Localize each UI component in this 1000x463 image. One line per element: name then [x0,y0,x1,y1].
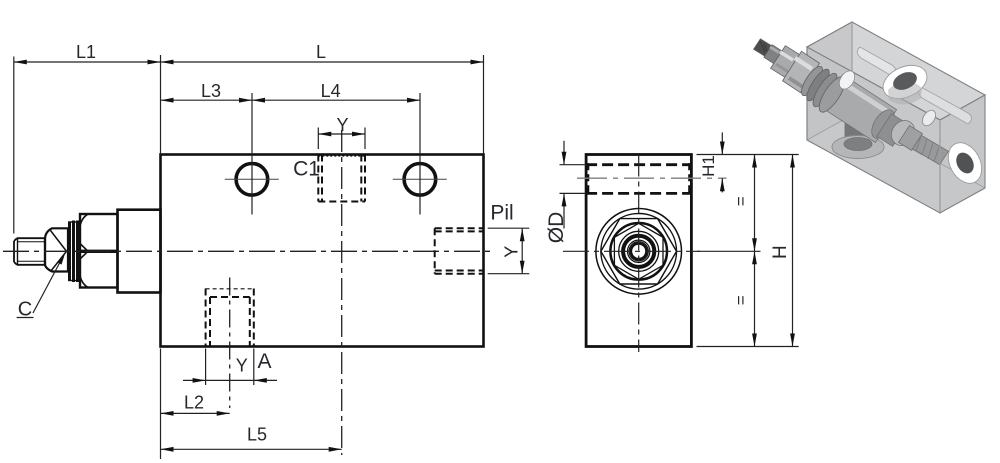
svg-text:Y: Y [336,115,348,135]
svg-text:L: L [316,42,326,62]
svg-text:C1: C1 [293,158,320,181]
svg-text:C: C [18,299,32,321]
svg-text:L3: L3 [201,81,221,101]
svg-text:H: H [770,245,791,259]
svg-text:=: = [732,295,751,305]
svg-text:Y: Y [502,246,522,258]
svg-text:=: = [732,196,751,206]
svg-text:A: A [257,350,271,373]
svg-text:Y: Y [236,356,248,376]
svg-text:Pil: Pil [490,202,513,225]
svg-text:L1: L1 [76,42,96,62]
svg-text:L5: L5 [247,425,267,445]
svg-text:ØD: ØD [545,212,568,244]
svg-text:H1: H1 [699,155,718,177]
svg-text:L4: L4 [321,81,341,101]
svg-text:L2: L2 [184,393,204,413]
